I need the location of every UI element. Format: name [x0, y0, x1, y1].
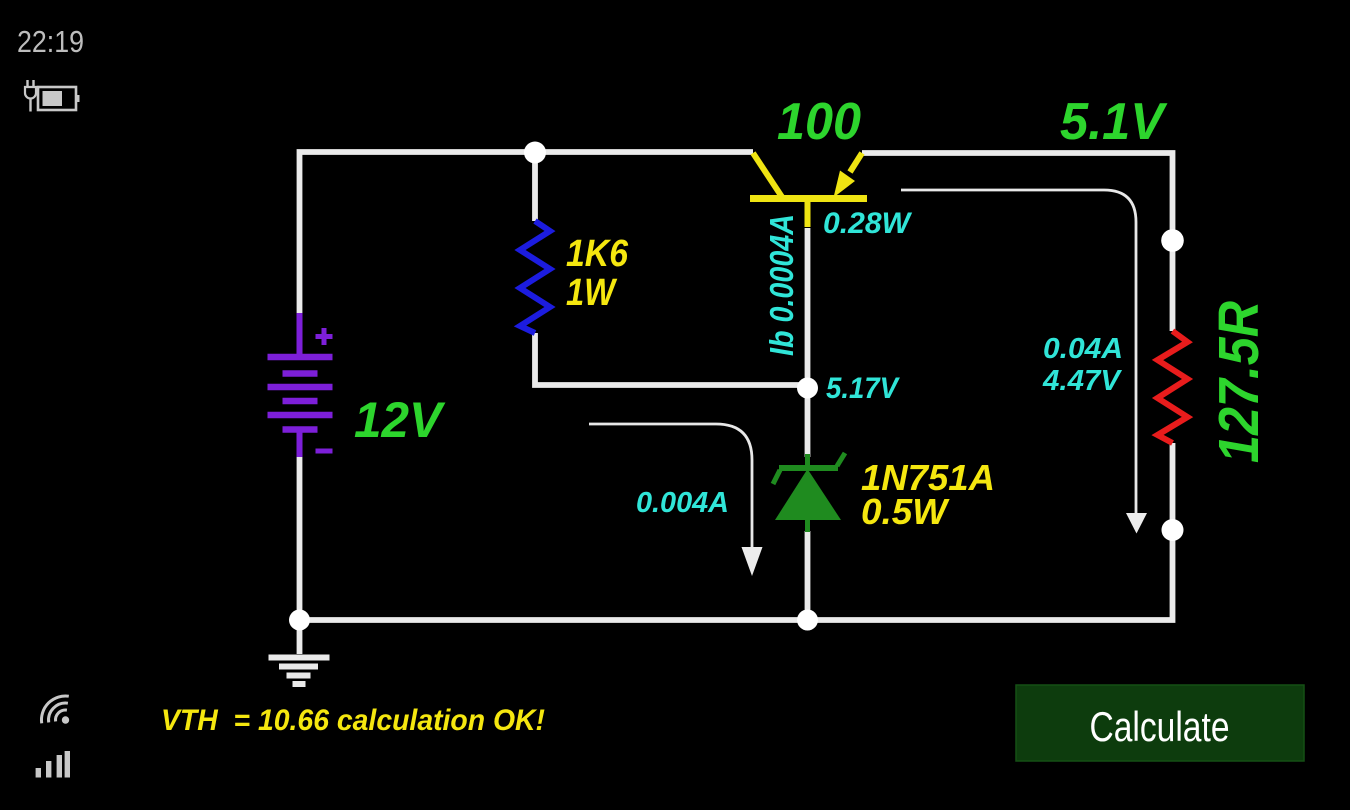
svg-text:0.004A: 0.004A — [636, 487, 729, 519]
svg-text:5.1V: 5.1V — [1060, 93, 1168, 151]
svg-text:127.5R: 127.5R — [1207, 301, 1271, 463]
svg-text:4.47V: 4.47V — [1042, 365, 1123, 397]
svg-text:1K6: 1K6 — [566, 233, 629, 275]
svg-text:0.04A: 0.04A — [1043, 333, 1123, 365]
svg-text:VTH = 10.66 calculation OK!: VTH = 10.66 calculation OK! — [161, 704, 545, 737]
svg-text:22:19: 22:19 — [17, 24, 84, 59]
svg-text:12V: 12V — [354, 392, 446, 448]
svg-text:0.28W: 0.28W — [823, 207, 913, 240]
svg-text:0.5W: 0.5W — [861, 491, 950, 532]
svg-text:5.17V: 5.17V — [826, 372, 901, 405]
svg-text:Calculate: Calculate — [1090, 703, 1230, 750]
svg-text:1W: 1W — [566, 272, 618, 314]
svg-text:100: 100 — [777, 93, 861, 151]
svg-text:Ib 0.0004A: Ib 0.0004A — [763, 214, 800, 356]
